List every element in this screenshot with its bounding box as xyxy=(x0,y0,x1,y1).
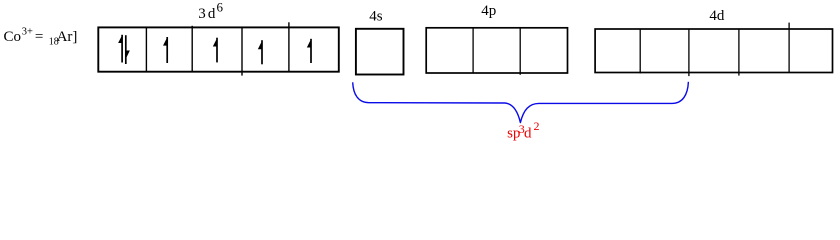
svg-text:d: d xyxy=(208,6,216,22)
svg-text:Co: Co xyxy=(4,29,22,45)
svg-text:3: 3 xyxy=(198,6,206,22)
3d divider 3 xyxy=(241,27,243,75)
4d divider 4 xyxy=(788,23,790,73)
svg-text:4s: 4s xyxy=(369,8,383,24)
3d divider 2 xyxy=(191,26,193,72)
3d divider 4 xyxy=(288,22,290,71)
4p divider 1 xyxy=(472,28,474,73)
up arrow cell 2 xyxy=(164,37,168,63)
label 3d6 xyxy=(198,0,223,22)
electron pair arrows cell 1: down arrow xyxy=(126,35,130,64)
svg-text:4d: 4d xyxy=(709,8,725,24)
4d divider 2 xyxy=(688,29,690,76)
3d orbital box row xyxy=(98,22,338,75)
electron pair arrows cell 1: up arrow xyxy=(119,35,122,63)
4p divider 2 xyxy=(519,28,521,75)
svg-text:=: = xyxy=(35,29,43,45)
svg-text:3+: 3+ xyxy=(22,26,33,37)
hybridization brace (blue) xyxy=(353,82,689,123)
label Co3+ = 18Ar] xyxy=(4,26,78,47)
4s orbital box xyxy=(356,29,404,75)
svg-text:d: d xyxy=(524,126,532,142)
svg-text:6: 6 xyxy=(217,0,224,15)
up arrow cell 4 xyxy=(258,40,262,64)
up arrow cell 5 xyxy=(307,39,311,63)
3d divider 1 xyxy=(145,27,147,71)
up arrow cell 3 xyxy=(213,38,217,63)
4d divider 1 xyxy=(639,29,641,73)
svg-text:Ar]: Ar] xyxy=(57,29,78,45)
svg-text:4p: 4p xyxy=(481,3,496,19)
4d orbital box row xyxy=(595,23,832,77)
label sp3d2 (red) xyxy=(507,119,539,141)
4p orbital box row xyxy=(426,28,567,75)
4d divider 3 xyxy=(738,29,740,76)
svg-text:2: 2 xyxy=(534,119,540,133)
